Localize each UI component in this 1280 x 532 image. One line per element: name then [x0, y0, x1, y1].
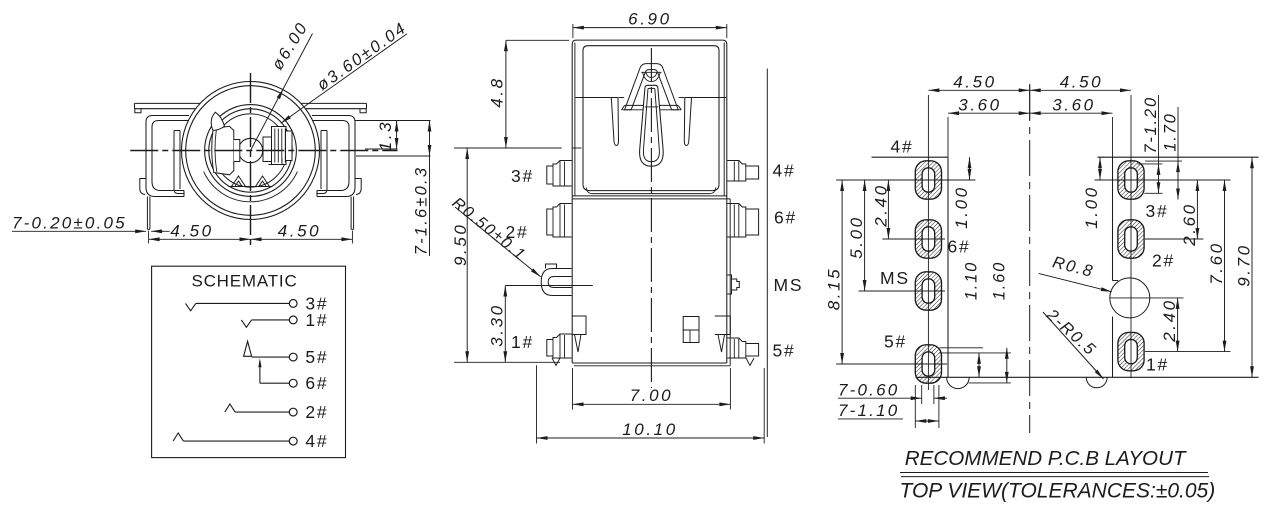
svg-text:6.90: 6.90 — [628, 10, 672, 29]
front view center pin circle — [238, 138, 262, 162]
pcb keyway circle R0.8 — [1110, 278, 1150, 318]
svg-text:5.00: 5.00 — [847, 215, 866, 259]
leader ø3.60±0.04 — [281, 19, 411, 124]
svg-text:7-1.20: 7-1.20 — [1142, 96, 1160, 154]
pcb dimension 2.60 — [1180, 180, 1199, 247]
side view right prong — [684, 98, 691, 146]
title top view tolerances — [900, 480, 1216, 503]
pcb dimension 1.60 — [939, 261, 1010, 383]
front view left shield clip — [146, 116, 189, 197]
svg-text:4.8: 4.8 — [487, 76, 506, 107]
pcb dimension 1.00 left — [952, 157, 971, 229]
pcb pad 6# label — [948, 237, 971, 257]
svg-text:7-1.6±0.3: 7-1.6±0.3 — [413, 166, 431, 255]
dimension 7-0.20±0.05 — [12, 214, 170, 234]
front view inner barrel circle ring (ø3.60) — [205, 105, 297, 197]
leader 2-R0.5 — [1042, 305, 1103, 379]
pcb footprint top edge left — [872, 156, 949, 158]
front view right solder leg — [351, 197, 354, 230]
pcb pad MS center extension line — [859, 290, 945, 292]
front view plate end step right — [360, 109, 366, 113]
leader R0.8 — [1039, 253, 1112, 292]
svg-text:2.40: 2.40 — [871, 183, 890, 228]
pcb dimension 2.40 right — [1160, 298, 1179, 352]
schematic pin 2# label — [305, 402, 328, 422]
pcb pad MS — [915, 272, 941, 310]
dimension 1.3 — [376, 120, 399, 151]
svg-text:4.50: 4.50 — [278, 222, 322, 241]
pcb dimension 7.60 — [1207, 180, 1226, 352]
svg-text:9.50: 9.50 — [451, 223, 470, 266]
side view vertical centerline — [650, 48, 652, 388]
side view latch right — [715, 316, 731, 352]
pcb dimension 1.10 — [939, 261, 1010, 377]
schematic pin 1# label — [305, 310, 328, 330]
dimension 4.50 4.50 front extension lines — [149, 231, 353, 244]
pcb dimension 4.50 right — [1030, 73, 1131, 93]
front view right clip inner wall — [317, 131, 327, 194]
pcb footprint right edge upper — [1113, 157, 1119, 280]
pcb dimension 9.70 — [1235, 157, 1254, 377]
svg-text:SCHEMATIC: SCHEMATIC — [191, 272, 297, 291]
svg-text:7.00: 7.00 — [630, 386, 674, 405]
pcb central axis line — [1029, 85, 1031, 433]
svg-text:6#: 6# — [305, 373, 328, 393]
side view right projection line — [766, 69, 768, 438]
side view latch left — [572, 316, 586, 352]
side view center pin blade — [640, 85, 664, 166]
title recommend pcb layout — [905, 447, 1187, 470]
schematic box — [152, 266, 346, 457]
pcb pad R2 center extension line — [1145, 238, 1203, 240]
dimension 7-1.10 — [838, 385, 939, 428]
svg-text:1.10: 1.10 — [963, 261, 981, 300]
side view shell left step — [572, 147, 581, 149]
pcb pad R3 center extension line — [1145, 351, 1231, 353]
pcb dimension 4.50 left — [928, 73, 1029, 93]
svg-text:MS: MS — [880, 268, 910, 288]
schematic pin 6# wire and contact — [260, 379, 297, 387]
dimension 9.50 — [451, 148, 560, 362]
pcb footprint top edge right — [1098, 156, 1259, 158]
side view pin 3# — [547, 161, 572, 187]
svg-text:1.00: 1.00 — [952, 185, 971, 229]
pcb pad 2# — [1118, 220, 1144, 258]
dimension 4.50 left front — [149, 222, 251, 242]
svg-text:1.70: 1.70 — [1162, 112, 1180, 151]
pcb pad 3# — [1118, 161, 1144, 199]
front view left inner contact block — [212, 126, 240, 175]
svg-text:5#: 5# — [305, 347, 328, 367]
dimension 4.8 — [454, 40, 569, 148]
svg-text:4#: 4# — [891, 137, 914, 157]
svg-text:RECOMMEND P.C.B LAYOUT: RECOMMEND P.C.B LAYOUT — [905, 447, 1187, 470]
side view inner cup rounded rect — [583, 46, 719, 185]
svg-text:3#: 3# — [511, 166, 534, 186]
pcb notch semicircle left (R0.5) — [947, 377, 970, 388]
svg-text:2.40: 2.40 — [1160, 298, 1179, 343]
svg-text:4#: 4# — [773, 161, 796, 181]
svg-text:MS: MS — [774, 275, 804, 295]
side view tent crossbar — [622, 105, 682, 109]
svg-text:4.50: 4.50 — [953, 73, 997, 92]
front view left clip foot — [140, 179, 146, 195]
svg-text:1#: 1# — [1146, 355, 1169, 375]
pcb dimension 1.70 — [1145, 107, 1182, 200]
dimension 7.00 — [573, 368, 731, 410]
leader ø6.00 — [251, 19, 313, 151]
side view pin 2# label — [506, 222, 529, 242]
pcb footprint left edge — [947, 157, 949, 377]
svg-text:3#: 3# — [1146, 201, 1169, 221]
side view pin 6# — [727, 204, 758, 238]
dimension 3.30 — [487, 286, 593, 363]
pcb pad 2# label — [1152, 251, 1175, 271]
svg-text:4.50: 4.50 — [1060, 73, 1104, 92]
pcb dimension 1.00 right — [1082, 157, 1102, 229]
side view tent apex dome — [641, 72, 661, 81]
dimension 7-1.6±0.3 — [413, 121, 432, 257]
svg-text:7-1.10: 7-1.10 — [838, 401, 899, 420]
schematic pin 5# wire and center pin symbol — [244, 341, 298, 361]
schematic pin 1# wire and contact — [241, 316, 297, 327]
side view shell and body left edge — [572, 40, 730, 366]
pcb pad MS label — [880, 268, 910, 288]
front view left clip inner wall — [174, 131, 184, 194]
pcb pad L1 center extension line — [836, 179, 975, 181]
front view inner bore circle — [214, 114, 287, 187]
svg-text:1.60: 1.60 — [990, 261, 1008, 300]
schematic title — [191, 272, 297, 291]
title underline double — [900, 473, 1209, 477]
pcb pad 1# label — [1146, 355, 1169, 375]
svg-text:6#: 6# — [948, 237, 971, 257]
schematic pin 5# label — [305, 347, 328, 367]
dimension 4.50 right front — [251, 222, 353, 242]
svg-text:3.60: 3.60 — [1052, 96, 1096, 115]
pcb notch semicircle right (R0.5) — [1086, 377, 1107, 388]
svg-text:3.30: 3.30 — [487, 303, 506, 347]
svg-text:7-0.20±0.05: 7-0.20±0.05 — [12, 214, 127, 233]
pcb pad 4# — [915, 161, 941, 199]
svg-text:9.70: 9.70 — [1235, 243, 1254, 287]
side view pin 6# label — [774, 208, 797, 228]
svg-text:2#: 2# — [1152, 251, 1175, 271]
svg-text:1#: 1# — [511, 332, 534, 352]
front view left solder leg (7-0.20) — [147, 197, 150, 230]
side view left prong — [611, 98, 618, 146]
pcb dimension 7-1.20 — [1138, 95, 1163, 193]
front view right shield clip — [312, 116, 355, 197]
dimension 7-0.60 — [838, 381, 947, 405]
front view right inner contact — [263, 127, 292, 165]
svg-text:3.60: 3.60 — [958, 96, 1002, 115]
side view pin 2# — [547, 204, 572, 238]
leader R0.50±0.1 — [449, 195, 541, 277]
svg-text:4.50: 4.50 — [170, 222, 214, 241]
dimension 6.90 — [573, 10, 727, 39]
pcb footprint right edge lower — [1112, 317, 1114, 378]
pcb R0.8 center extension line — [1110, 297, 1184, 299]
front view right clip foot — [355, 179, 361, 195]
pcb dimension 5.00 — [847, 180, 866, 291]
side view pin 4# label — [773, 161, 796, 181]
pcb dimension 3.60 right — [1030, 96, 1113, 116]
pcb dimension 8.15 — [825, 180, 844, 364]
side view curl pin R0.50 — [541, 264, 571, 296]
pcb pad 5# — [915, 345, 941, 383]
svg-text:5#: 5# — [773, 341, 796, 361]
pcb pad L2 center extension line — [882, 238, 945, 240]
side view MS bump — [727, 275, 739, 294]
pcb footprint bottom edge — [916, 376, 1259, 378]
front view left contact crescent — [211, 112, 224, 130]
schematic pin 3# label — [305, 293, 328, 313]
svg-text:2#: 2# — [305, 402, 328, 422]
svg-text:7.60: 7.60 — [1207, 241, 1226, 285]
svg-text:2.60: 2.60 — [1180, 202, 1199, 247]
front view bottom tab left — [232, 176, 246, 187]
svg-text:1.3: 1.3 — [376, 120, 395, 151]
front view outer barrel circle ring (ø6.00) — [182, 82, 320, 220]
side view cup bottom flange — [572, 184, 730, 199]
front view bottom tab right — [256, 176, 270, 187]
svg-text:1#: 1# — [305, 310, 328, 330]
pcb center extension line — [1029, 84, 1031, 120]
side view pin 5# label — [773, 341, 796, 361]
front view bottom tab base line — [229, 186, 273, 188]
pcb 3.60 extension left — [947, 117, 949, 157]
pcb right pad column centerline — [1130, 95, 1132, 378]
pcb pad R1 center extension line — [1095, 179, 1231, 181]
side view spring tent — [625, 64, 679, 110]
svg-text:5#: 5# — [884, 332, 907, 352]
side view pin 5# wedge — [746, 358, 754, 366]
side view body bottom edge — [572, 363, 730, 366]
side view pin 3# label — [511, 166, 534, 186]
side view pin 4# — [727, 161, 758, 182]
front view plate end step left — [135, 109, 141, 113]
schematic pin 4# label — [305, 431, 328, 451]
front view centerline horizontal — [130, 150, 397, 152]
schematic pin 2# wire and contact — [225, 404, 297, 416]
svg-text:TOP VIEW(TOLERANCES:±0.05): TOP VIEW(TOLERANCES:±0.05) — [900, 480, 1216, 503]
pcb 3.60 extension right — [1112, 117, 1114, 157]
side view shell mid line — [576, 97, 727, 99]
side view pin 1# wedge — [552, 358, 560, 366]
pcb left pad column centerline — [927, 95, 929, 390]
side view latch middle — [683, 317, 699, 343]
pcb pad 1# — [1118, 332, 1144, 370]
front view housing bottom arc — [204, 172, 298, 202]
schematic pin 4# wire and contact — [173, 433, 297, 445]
side view pin 1# — [547, 334, 572, 358]
pcb pad 3# label — [1146, 201, 1169, 221]
svg-text:4#: 4# — [305, 431, 328, 451]
dimension 1.3 extension lines — [355, 121, 431, 157]
pcb dimension 2.40 left — [871, 180, 890, 239]
side view pin 1# label — [511, 332, 534, 352]
front view centerline vertical — [250, 73, 252, 248]
schematic pin 6# label — [305, 373, 328, 393]
svg-text:1.00: 1.00 — [1082, 185, 1101, 229]
pcb pad L4 center extension line — [836, 363, 947, 365]
svg-text:7-0.60: 7-0.60 — [838, 381, 899, 400]
pcb dimension 3.60 left — [948, 96, 1030, 116]
schematic pin 3# wire and contact — [186, 300, 298, 311]
pcb pad 5# label — [884, 332, 907, 352]
pcb pad 6# — [915, 220, 941, 258]
front view top mounting plate — [135, 103, 367, 108]
schematic switch wire 6# to 5# — [258, 358, 261, 383]
dimension 10.10 — [537, 365, 765, 443]
svg-text:8.15: 8.15 — [825, 267, 844, 311]
side view pin 5# — [727, 338, 758, 358]
svg-text:6#: 6# — [774, 208, 797, 228]
svg-text:10.10: 10.10 — [622, 420, 678, 439]
pcb pad 4# label — [891, 137, 914, 157]
side view MS label — [774, 275, 804, 295]
